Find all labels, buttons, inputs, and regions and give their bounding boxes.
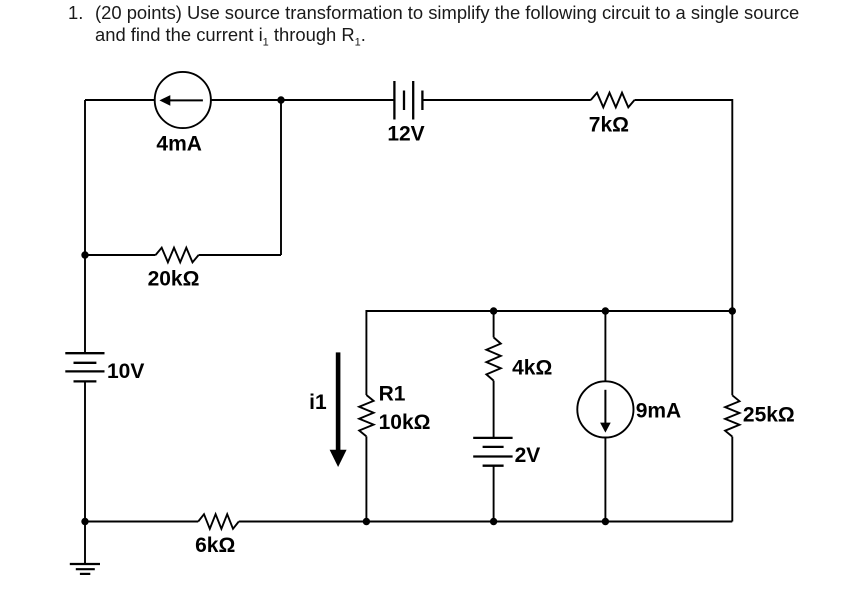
svg-text:10V: 10V (107, 360, 144, 383)
svg-text:10kΩ: 10kΩ (379, 411, 431, 434)
svg-text:4kΩ: 4kΩ (512, 357, 552, 380)
svg-text:7kΩ: 7kΩ (589, 114, 629, 137)
svg-text:12V: 12V (387, 123, 424, 146)
svg-text:6kΩ: 6kΩ (195, 534, 235, 557)
svg-text:R1: R1 (379, 382, 406, 405)
svg-text:i1: i1 (309, 391, 327, 414)
svg-text:20kΩ: 20kΩ (148, 267, 200, 290)
svg-text:9mA: 9mA (636, 400, 682, 423)
svg-text:4mA: 4mA (156, 133, 202, 156)
svg-text:25kΩ: 25kΩ (743, 404, 795, 427)
svg-text:2V: 2V (515, 444, 541, 467)
